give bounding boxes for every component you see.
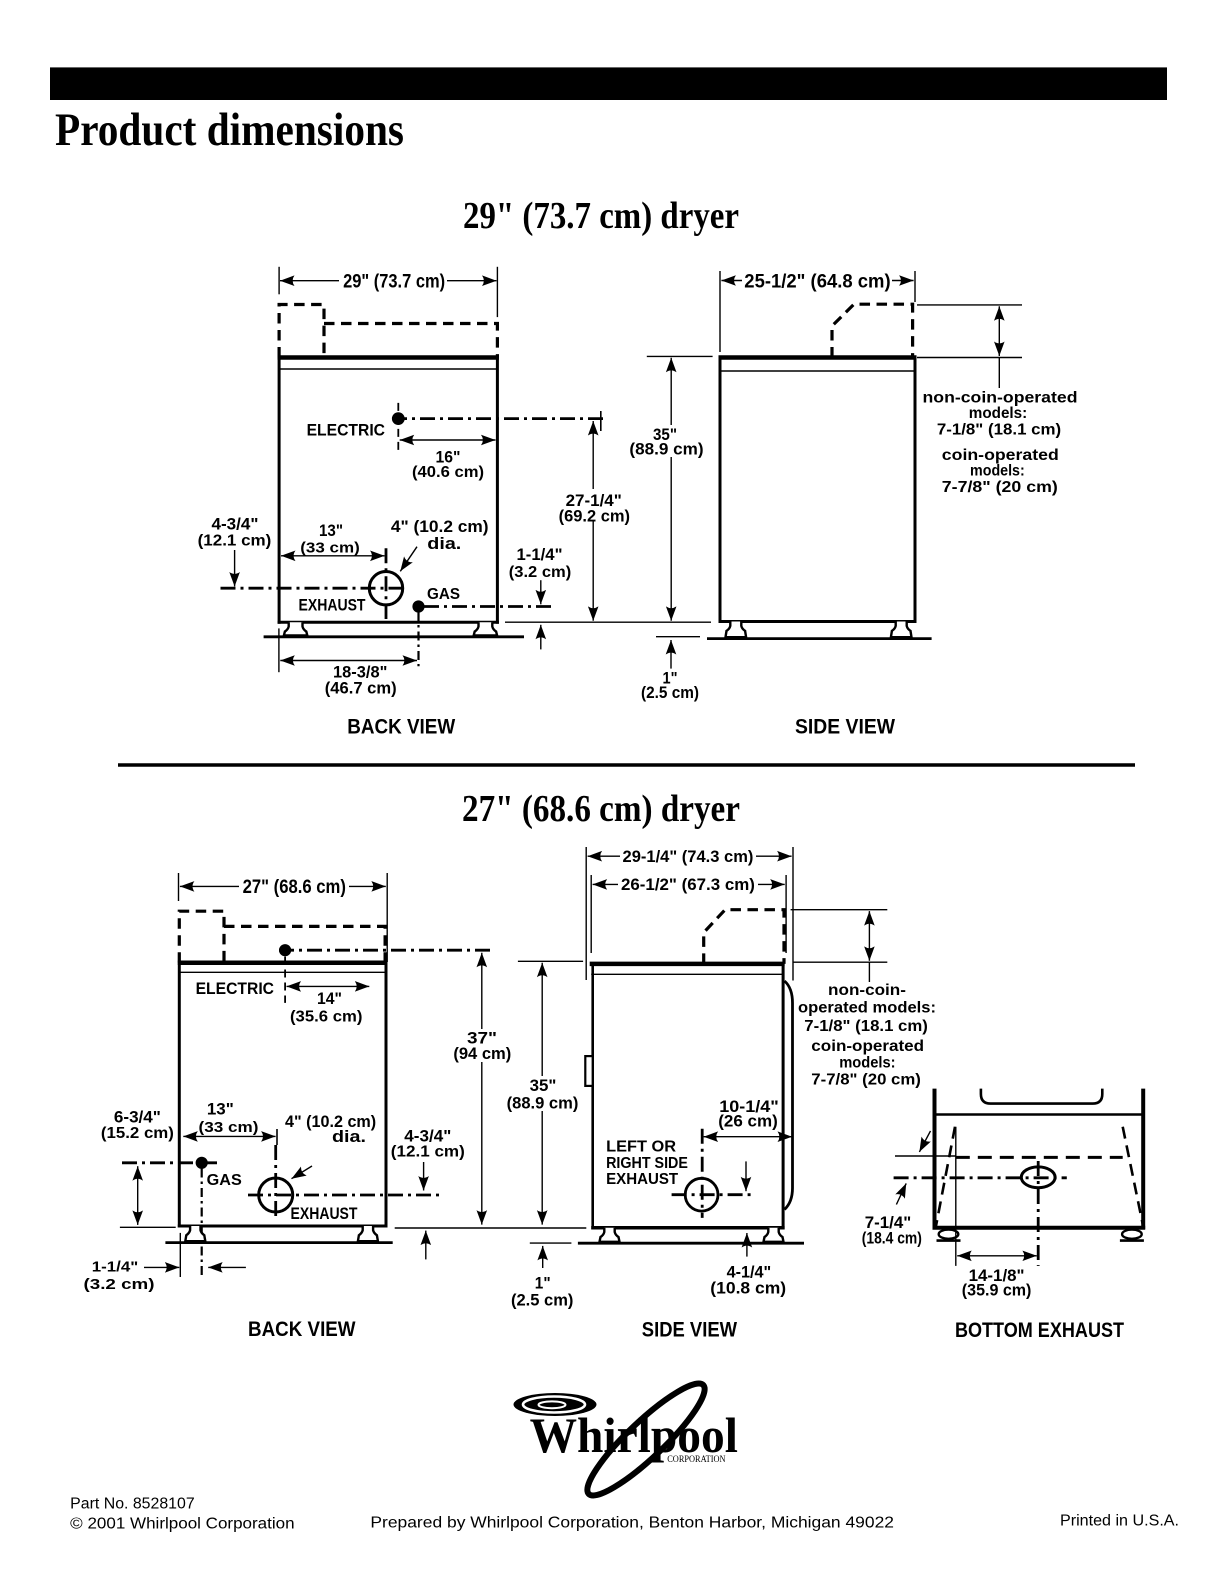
- svg-text:models:: models:: [969, 405, 1028, 422]
- dim 4-3/4 down arrow: [234, 550, 236, 587]
- side right foot: [764, 1228, 784, 1242]
- dim 27-1/4 label mask: [557, 489, 635, 521]
- svg-text:(12.1 cm): (12.1 cm): [391, 1144, 465, 1161]
- dim 35 extension line: [518, 960, 583, 962]
- svg-text:7-1/8" (18.1 cm): 7-1/8" (18.1 cm): [937, 422, 1061, 439]
- console height ext line bottom: [917, 357, 1022, 359]
- dim 26-1/2 extension line right: [785, 875, 787, 953]
- dim 27in extension line right: [386, 873, 388, 962]
- svg-text:(88.9 cm): (88.9 cm): [507, 1094, 579, 1112]
- dim 16in line: [400, 439, 496, 441]
- dim 1in floor extension line: [530, 1242, 572, 1244]
- console wide dashed box: [324, 324, 497, 358]
- dim 25-1/2 line: [721, 280, 913, 282]
- dim 1-1/4 extension line: [179, 1233, 181, 1277]
- dim 7-1/4 leader arrow: [896, 1183, 906, 1204]
- svg-text:(40.6 cm): (40.6 cm): [412, 464, 484, 481]
- console height leader line: [998, 358, 1000, 389]
- svg-text:27" (68.6 cm) dryer: 27" (68.6 cm) dryer: [462, 788, 740, 830]
- svg-text:© 2001 Whirlpool Corporation: © 2001 Whirlpool Corporation: [70, 1516, 294, 1533]
- dim 14-1/8 line: [957, 1255, 1037, 1257]
- dim 18-3/8 line: [280, 660, 417, 662]
- left foot: [284, 622, 307, 635]
- svg-text:6-3/4": 6-3/4": [114, 1109, 161, 1127]
- dim 37 vertical line: [481, 953, 483, 1225]
- console height ext line bottom: [793, 961, 888, 963]
- svg-text:Product dimensions: Product dimensions: [55, 104, 404, 156]
- console height double arrow: [998, 306, 1000, 356]
- cabinet top line: [278, 355, 499, 360]
- console height ext line top: [791, 909, 888, 911]
- svg-text:(10.8 cm): (10.8 cm): [710, 1280, 786, 1298]
- gas centerline: [122, 1161, 217, 1164]
- side cabinet bottom edge: [591, 1226, 784, 1230]
- left wall: [933, 1089, 937, 1230]
- svg-text:27" (68.6 cm): 27" (68.6 cm): [243, 876, 346, 898]
- cabinet right edge: [385, 963, 388, 1228]
- svg-text:1-1/4": 1-1/4": [517, 546, 563, 564]
- svg-text:CORPORATION: CORPORATION: [667, 1455, 725, 1465]
- oval vertical centerline: [1037, 1161, 1040, 1266]
- svg-text:SIDE VIEW: SIDE VIEW: [642, 1317, 738, 1341]
- dim 25-1/2 extension line left: [719, 271, 721, 352]
- dim 4-3/4 up arrow: [425, 1231, 427, 1260]
- gas vertical centerline: [201, 1169, 203, 1278]
- dim 13in line: [183, 1135, 275, 1137]
- svg-text:25-1/2" (64.8 cm): 25-1/2" (64.8 cm): [744, 270, 890, 292]
- handle recess: [981, 1089, 1102, 1104]
- swirl core: [545, 1403, 558, 1407]
- exhaust circle: [259, 1178, 293, 1212]
- header black bar: [50, 67, 1167, 100]
- duct back edge dashed: [956, 1156, 1123, 1159]
- dim 1in up arrow: [670, 640, 672, 669]
- bottom edge: [933, 1226, 1146, 1230]
- rear bulge outline: [785, 981, 793, 1210]
- console small dashed box: [279, 305, 324, 358]
- svg-text:26-1/2" (67.3 cm): 26-1/2" (67.3 cm): [621, 875, 755, 894]
- exhaust oval: [1021, 1167, 1055, 1188]
- svg-text:ELECTRIC: ELECTRIC: [307, 421, 385, 440]
- svg-text:models:: models:: [970, 463, 1025, 480]
- side cabinet left edge: [719, 358, 722, 624]
- console small dashed box: [179, 911, 224, 963]
- svg-text:EXHAUST: EXHAUST: [299, 595, 367, 614]
- svg-text:BACK VIEW: BACK VIEW: [248, 1317, 356, 1341]
- svg-text:SIDE VIEW: SIDE VIEW: [795, 715, 896, 739]
- svg-text:LEFT OR: LEFT OR: [606, 1139, 676, 1156]
- console wide dashed box: [224, 926, 385, 962]
- svg-text:(3.2 cm): (3.2 cm): [509, 564, 572, 581]
- svg-text:13": 13": [319, 522, 343, 540]
- side cabinet top line: [719, 355, 917, 360]
- side cabinet inner top line: [720, 370, 915, 372]
- side left foot: [600, 1228, 620, 1242]
- svg-text:GAS: GAS: [207, 1172, 242, 1189]
- right wall: [1141, 1089, 1145, 1230]
- dim 35 label mask: [505, 1076, 581, 1111]
- side exhaust horizontal centerline: [672, 1193, 755, 1196]
- cabinet right edge: [496, 358, 499, 624]
- svg-text:(35.6 cm): (35.6 cm): [290, 1009, 362, 1026]
- side right foot: [891, 622, 912, 638]
- exhaust vertical centerline: [385, 548, 388, 619]
- gas connection dot: [413, 601, 424, 612]
- svg-text:coin-operated: coin-operated: [811, 1038, 924, 1055]
- dim 37 label mask: [450, 1029, 514, 1062]
- dim 13in line: [281, 555, 385, 557]
- cabinet inner top line: [279, 368, 497, 370]
- duct level extension line: [895, 1155, 956, 1157]
- right foot base: [1120, 1239, 1144, 1242]
- svg-text:non-coin-: non-coin-: [828, 982, 906, 999]
- side console dashed outline: [704, 910, 784, 964]
- electric vertical dashed line: [284, 957, 286, 1003]
- cabinet inner top line: [179, 971, 386, 973]
- svg-text:7-1/8" (18.1 cm): 7-1/8" (18.1 cm): [804, 1018, 928, 1035]
- oval horizontal centerline: [894, 1176, 1067, 1179]
- dim 29in (73.7 cm) line: [280, 280, 497, 282]
- side cabinet right edge: [782, 964, 785, 1229]
- cabinet bottom edge: [278, 621, 499, 624]
- dim 14-1/8 extension line: [955, 1127, 957, 1266]
- gas centerline: [424, 605, 555, 608]
- right foot: [474, 622, 497, 635]
- 4in dia leader arrow: [400, 547, 417, 572]
- dim 1-1/4 down arrow: [540, 580, 542, 604]
- svg-text:(26 cm): (26 cm): [718, 1112, 778, 1130]
- duct left slant dashed: [936, 1127, 955, 1227]
- side floor line: [578, 1242, 804, 1245]
- dim 27in line: [180, 885, 386, 887]
- left side hinge detail: [585, 1056, 592, 1086]
- svg-text:4" (10.2 cm): 4" (10.2 cm): [391, 518, 489, 536]
- side exhaust down arrow: [745, 1161, 747, 1191]
- svg-text:operated models:: operated models:: [798, 1000, 936, 1017]
- svg-text:EXHAUST: EXHAUST: [291, 1204, 358, 1223]
- dim 1-1/4 right arrow: [144, 1266, 179, 1268]
- floor extension line: [656, 636, 700, 638]
- svg-text:(33 cm): (33 cm): [300, 540, 360, 557]
- side cabinet top line: [590, 962, 785, 967]
- svg-text:BOTTOM EXHAUST: BOTTOM EXHAUST: [955, 1318, 1124, 1342]
- svg-text:(2.5 cm): (2.5 cm): [641, 684, 699, 702]
- svg-text:(33 cm): (33 cm): [199, 1119, 259, 1136]
- side cabinet inner top line: [591, 973, 783, 975]
- svg-text:(69.2 cm): (69.2 cm): [559, 508, 630, 526]
- svg-text:4-3/4": 4-3/4": [404, 1127, 451, 1145]
- dim 27-1/4 vertical line: [592, 421, 594, 621]
- cabinet bottom edge: [178, 1225, 388, 1228]
- console height double arrow: [868, 911, 870, 961]
- dim 26-1/2 line: [593, 883, 785, 885]
- dim 10-1/4 line: [704, 1136, 792, 1138]
- electric connection dot: [280, 945, 291, 956]
- left foot base: [937, 1239, 961, 1242]
- svg-text:(35.9 cm): (35.9 cm): [962, 1281, 1032, 1299]
- side exhaust circle: [685, 1178, 718, 1211]
- cabinet left edge: [178, 963, 181, 1228]
- svg-text:Part No. 8528107: Part No. 8528107: [70, 1496, 195, 1513]
- dim 27in extension line left: [178, 873, 180, 901]
- svg-text:35": 35": [530, 1077, 557, 1095]
- bottom left extension line: [120, 1226, 176, 1228]
- console height ext line top: [917, 304, 1022, 306]
- dim 35 vertical line: [541, 963, 543, 1225]
- svg-text:7-7/8" (20 cm): 7-7/8" (20 cm): [942, 479, 1058, 496]
- swirl ring white 2: [539, 1401, 566, 1408]
- svg-text:models:: models:: [839, 1055, 895, 1072]
- top inner line: [935, 1113, 1144, 1116]
- cabinet left edge: [278, 358, 281, 624]
- side exhaust vertical centerline: [701, 1129, 704, 1218]
- svg-text:EXHAUST: EXHAUST: [606, 1171, 678, 1188]
- dim 26-1/2 extension line left: [590, 875, 592, 953]
- dim 14in line: [287, 985, 370, 987]
- svg-text:(94 cm): (94 cm): [453, 1045, 511, 1063]
- svg-text:dia.: dia.: [332, 1128, 366, 1146]
- svg-text:(88.9 cm): (88.9 cm): [629, 440, 703, 458]
- electric vertical dashed line: [397, 403, 399, 453]
- electric centerline: [392, 417, 603, 420]
- svg-text:non-coin-operated: non-coin-operated: [923, 390, 1078, 407]
- left foot: [185, 1226, 205, 1241]
- svg-text:(12.1 cm): (12.1 cm): [198, 532, 272, 549]
- dim 29-1/4 extension line right: [792, 847, 794, 981]
- exhaust horizontal centerline: [248, 1194, 441, 1197]
- section divider rule: [118, 763, 1135, 766]
- side cabinet right edge: [914, 358, 917, 624]
- svg-text:14": 14": [317, 989, 342, 1008]
- swirl ring white: [523, 1397, 585, 1413]
- dim 29in extension line right: [496, 267, 498, 317]
- duct right slant dashed: [1123, 1127, 1144, 1227]
- dim 29in extension line left: [278, 267, 280, 295]
- electric connection dot: [392, 413, 404, 425]
- svg-text:29" (73.7 cm): 29" (73.7 cm): [343, 271, 445, 293]
- console height leader line: [868, 962, 870, 982]
- svg-text:RIGHT SIDE: RIGHT SIDE: [606, 1155, 688, 1172]
- svg-text:(3.2 cm): (3.2 cm): [84, 1276, 155, 1293]
- side floor line: [707, 637, 932, 640]
- svg-text:7-7/8" (20 cm): 7-7/8" (20 cm): [811, 1072, 921, 1089]
- gas connection dot: [196, 1157, 207, 1168]
- svg-text:(18.4 cm): (18.4 cm): [862, 1230, 922, 1248]
- svg-text:(2.5 cm): (2.5 cm): [511, 1292, 573, 1310]
- gas vertical centerline: [417, 612, 419, 666]
- dim 35 vertical line: [670, 358, 672, 621]
- svg-text:1": 1": [535, 1275, 551, 1293]
- svg-text:(15.2 cm): (15.2 cm): [101, 1125, 174, 1142]
- svg-text:Printed in U.S.A.: Printed in U.S.A.: [1060, 1513, 1179, 1530]
- right foot pad: [1122, 1230, 1142, 1239]
- logo ellipse loop: [576, 1372, 715, 1507]
- floor line: [165, 1241, 392, 1244]
- dim 25-1/2 extension line right: [914, 271, 916, 302]
- svg-text:Prepared by Whirlpool Corporat: Prepared by Whirlpool Corporation, Bento…: [370, 1515, 894, 1532]
- side console dashed outline: [832, 304, 913, 357]
- bottom right extension line: [395, 1227, 587, 1229]
- electric centerline end tick: [600, 411, 602, 431]
- right foot: [358, 1226, 378, 1241]
- dim 1in up arrow: [542, 1246, 544, 1268]
- dim 4-1/4 up arrow: [746, 1233, 748, 1257]
- electric centerline: [279, 949, 491, 952]
- svg-text:29" (73.7 cm) dryer: 29" (73.7 cm) dryer: [463, 195, 739, 237]
- svg-text:1-1/4": 1-1/4": [92, 1259, 139, 1276]
- side cabinet bottom edge: [719, 620, 917, 623]
- svg-text:(46.7 cm): (46.7 cm): [325, 679, 397, 697]
- duct level leader arrow: [919, 1131, 930, 1152]
- dim 29-1/4 extension line left: [585, 847, 587, 980]
- exhaust circle: [369, 572, 402, 605]
- dim 1-1/4 left arrow: [208, 1266, 246, 1268]
- swirl inner black: [531, 1399, 575, 1410]
- dim 6-3/4 double arrow: [137, 1166, 139, 1225]
- bottom extension line: [505, 621, 711, 623]
- dim 18-3/8 extension line: [278, 628, 280, 672]
- left foot pad: [939, 1230, 959, 1239]
- svg-text:GAS: GAS: [427, 586, 460, 603]
- dim 35 label mask: [628, 425, 706, 457]
- svg-text:coin-operated: coin-operated: [942, 447, 1059, 464]
- svg-text:29-1/4" (74.3 cm): 29-1/4" (74.3 cm): [623, 847, 754, 866]
- svg-text:4-3/4": 4-3/4": [212, 516, 259, 534]
- dim 29-1/4 line: [588, 855, 792, 857]
- floor line: [264, 635, 524, 638]
- swirl outer: [514, 1393, 597, 1416]
- 4in dia leader arrow: [292, 1166, 313, 1179]
- svg-text:13": 13": [207, 1101, 234, 1119]
- side left foot: [726, 622, 747, 638]
- svg-text:BACK VIEW: BACK VIEW: [347, 715, 456, 739]
- dim 1-1/4 up arrow: [540, 625, 542, 650]
- exhaust horizontal centerline: [221, 587, 408, 590]
- exhaust vertical centerline: [274, 1145, 277, 1220]
- dim 4-3/4 down arrow: [423, 1162, 425, 1191]
- dim 35 extension line: [647, 355, 713, 357]
- svg-text:dia.: dia.: [427, 535, 461, 553]
- side cabinet left edge: [591, 964, 594, 1229]
- dim 13in tick: [276, 1129, 278, 1145]
- cabinet top line: [178, 961, 388, 966]
- svg-text:ELECTRIC: ELECTRIC: [196, 979, 274, 998]
